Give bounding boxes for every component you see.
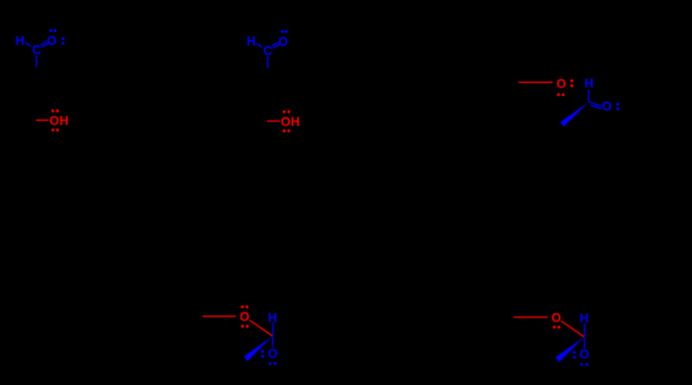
svg-text:O: O (268, 347, 278, 361)
svg-text:O: O (278, 35, 288, 49)
svg-text:O: O (602, 100, 612, 114)
svg-text:H: H (59, 114, 68, 128)
svg-text:O: O (556, 77, 566, 91)
svg-text:H: H (584, 77, 593, 91)
svg-text:O: O (47, 34, 57, 48)
svg-text:O: O (580, 348, 590, 362)
svg-text:H: H (247, 35, 256, 49)
svg-text:O: O (49, 114, 59, 128)
svg-text:H: H (291, 115, 300, 129)
svg-text:O: O (240, 310, 250, 324)
svg-text:H: H (15, 34, 24, 48)
svg-text:O: O (281, 115, 291, 129)
svg-text:O: O (551, 311, 561, 325)
